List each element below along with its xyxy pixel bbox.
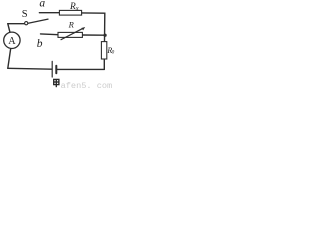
svg-text:afen5. com: afen5. com xyxy=(61,81,113,89)
resistor Rx box xyxy=(59,10,81,15)
rheostat R box xyxy=(58,32,82,37)
wire bottom right segment xyxy=(56,68,104,70)
svg-text:R0: R0 xyxy=(106,46,114,55)
svg-text:A: A xyxy=(8,36,16,47)
wire branch b left segment xyxy=(41,33,59,36)
wire bottom left segment xyxy=(8,67,52,70)
wire branch a left segment xyxy=(39,12,59,14)
svg-text:a: a xyxy=(39,0,45,10)
wire left vertical upper xyxy=(8,24,10,33)
battery figure label jia xyxy=(54,79,59,87)
switch S blade xyxy=(28,19,48,23)
wire top-left horizontal to switch xyxy=(8,23,25,25)
battery short plate xyxy=(55,66,57,74)
wire branch b right segment xyxy=(83,34,104,36)
rheostat arrow xyxy=(61,29,82,40)
wire right vertical below R0 xyxy=(103,59,105,69)
ammeter A circle xyxy=(4,32,20,48)
battery long plate xyxy=(51,61,53,77)
svg-text:Rx: Rx xyxy=(69,2,79,12)
resistor R0 box xyxy=(101,42,106,59)
svg-text:S: S xyxy=(22,9,28,20)
svg-text:R: R xyxy=(68,20,75,30)
switch S pivot circle xyxy=(25,22,28,25)
junction node dot xyxy=(104,34,107,37)
wire right vertical above R0 with top corner xyxy=(82,13,105,42)
wire left vertical lower xyxy=(8,48,11,68)
svg-text:b: b xyxy=(37,38,43,50)
